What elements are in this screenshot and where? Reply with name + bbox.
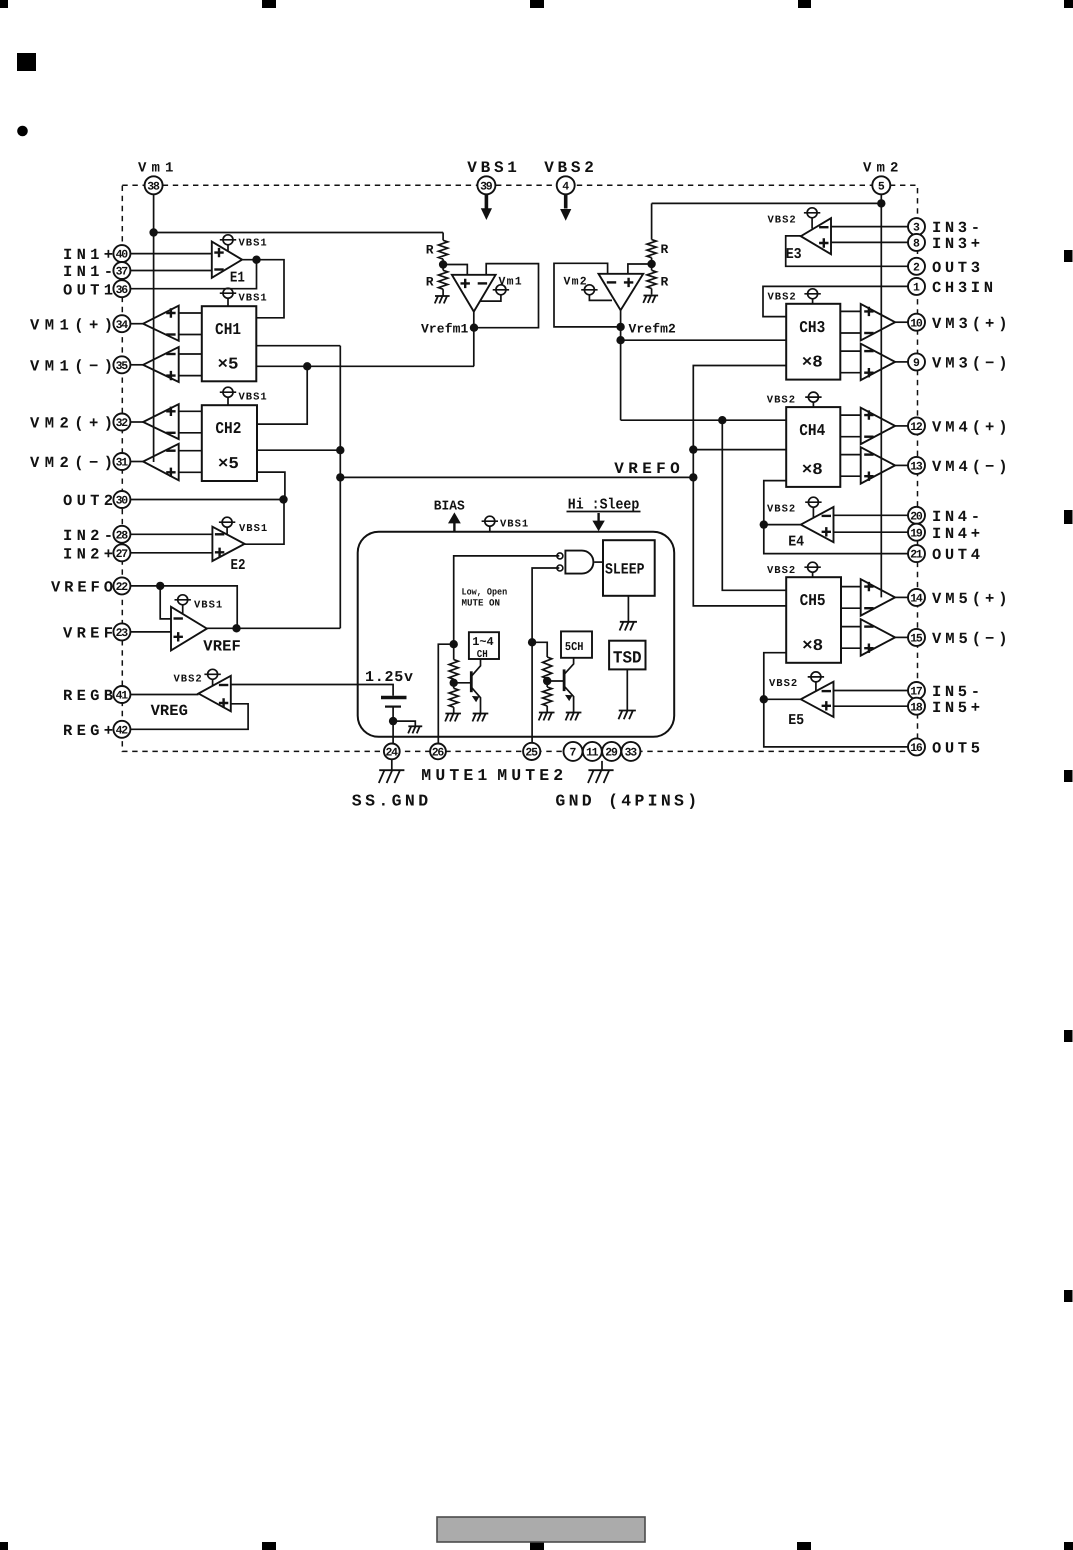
block SLEEP [603,540,655,596]
wire VREG - to 1.25v cap [231,685,393,696]
svg-text:VBS2: VBS2 [769,678,798,690]
svg-text:21: 21 [910,549,923,562]
svg-text:×8: ×8 [802,353,823,372]
wire rail to CH4 input 2 [693,449,786,451]
wire divider2 top [651,203,653,239]
pin 4 [557,176,575,194]
svg-text:VBS2: VBS2 [768,215,797,227]
wire CH3 to buffer row 3 [840,350,860,352]
pin 15 [908,629,925,646]
wire E2 output to OUT2 node [245,500,284,545]
wire CH3 input 2 rail [693,366,786,606]
svg-text:29: 29 [605,747,618,760]
op-amp Vrefm1 [452,275,496,312]
buffer amp U3 (VM4+) [861,408,895,445]
gain block CH1 [202,306,256,381]
ground GND 4 pins [588,770,614,783]
op-amp E1 [212,242,242,278]
wire E4 feedback to CH4 [764,481,786,525]
pin 18 [908,698,925,715]
wire CH1 output to VREF rail [256,345,340,347]
pin 21 [908,545,925,562]
svg-text:Vrefm1: Vrefm1 [421,322,469,337]
pin 7 [564,742,583,761]
svg-text:VBS1: VBS1 [194,600,223,612]
svg-text:5: 5 [878,180,885,193]
wire Vm2 branch to divider2 [652,202,882,204]
svg-text:Vm1: Vm1 [138,161,173,177]
wire buffer D input lower [179,471,202,473]
wire MUTE1 R to ground [453,707,455,713]
svg-text:TSD: TSD [613,650,642,669]
svg-text:CH5: CH5 [800,591,826,610]
wire VREFO horizontal [340,476,693,478]
svg-text:10: 10 [910,317,923,330]
wire E3 output to pin2 OUT3 [786,236,908,266]
junction MUTE2 base node [543,677,551,685]
power tap VBS1 at E2 [219,517,268,535]
svg-text:40: 40 [116,249,129,262]
wire pin18 to E5 + [834,705,909,707]
junction CH4 input branch [718,416,726,424]
wire pin27 to E2 + [130,552,212,554]
pin 42 [113,721,130,738]
svg-text:16: 16 [910,742,923,755]
svg-text:×8: ×8 [802,460,823,479]
svg-text:32: 32 [116,417,129,430]
op-amp VREG [199,676,231,712]
wire CH2 output to VREF rail [257,449,340,451]
svg-text:24: 24 [385,747,398,760]
pin 11 [583,742,602,761]
block 5CH [561,631,592,657]
block TSD [609,641,645,670]
svg-text:37: 37 [116,266,129,279]
Hi :Sleep arrow [592,513,604,531]
wire buffer U6 to pin15 [895,636,908,638]
wire buffer U2 to pin9 [895,361,908,363]
pin 14 [908,589,925,606]
svg-text:VBS2: VBS2 [767,395,796,407]
svg-text:23: 23 [116,627,129,640]
svg-text:CH4: CH4 [799,421,825,440]
pin 1 [908,278,925,295]
pin 5 [872,176,890,194]
svg-text:19: 19 [910,527,923,540]
junction Vm1 branch [149,228,157,236]
wire CH4 to buffer row 1 [840,414,860,416]
svg-text:36: 36 [116,284,129,297]
ground at cap [408,726,422,733]
pin 32 [113,414,130,431]
wire VREG + feedback to pin42 [131,704,249,730]
gain block CH2 [202,405,257,481]
pin 35 [113,356,130,373]
wire buffer A input upper [179,312,202,314]
svg-text:CH3: CH3 [799,318,825,337]
wire MUTE2 node to divider [532,642,547,657]
svg-text:VBS1: VBS1 [500,519,529,531]
node Vrefm2 [616,323,624,331]
svg-text:VBS1: VBS1 [239,293,268,305]
power tap VBS1 at CH2 [220,387,268,405]
junction E1 output [252,256,260,264]
wire pin8 to E3 + [831,241,908,243]
wire CH3 to buffer row 1 [840,310,860,312]
wire divider2 middle [651,258,653,271]
svg-text:×5: ×5 [218,354,239,373]
wire pin31 to buffer D tip [130,461,143,463]
wire pin23 to VREF + [130,631,171,633]
wire buffer U1 to pin10 [895,321,908,323]
ground MUTE1 divider [445,714,461,722]
wire MUTE2 node to pin25 [531,642,533,743]
svg-text:Vrefm2: Vrefm2 [629,322,677,337]
wire divider1 top [442,233,444,241]
wire E4 output to pin21 OUT4 [764,525,908,554]
buffer amp U4 (VM4-) [861,447,895,484]
wire buffer D input upper [179,450,202,452]
svg-text:8: 8 [913,238,920,251]
svg-text:VREG: VREG [151,702,188,720]
svg-text:E4: E4 [788,534,804,551]
svg-text:28: 28 [116,529,129,542]
wire buffer U4 to pin13 [895,464,908,466]
ground at SLEEP [620,622,637,631]
svg-text:38: 38 [147,180,160,193]
VBS1 supply arrow [481,195,492,221]
wire CH4 to buffer row 4 [840,475,860,477]
pin 2 [908,258,925,275]
svg-text:VBS2: VBS2 [767,504,796,516]
svg-text:MUTE2: MUTE2 [497,766,563,785]
buffer amp C (VM2+) [143,404,179,439]
wire pin19 to E4 + [834,531,909,533]
svg-text:VBS2: VBS2 [767,565,796,577]
power tap VBS2 at CH5 [767,562,821,577]
resistor R (divider2 lower) [647,270,656,288]
svg-text:GND (4PINS): GND (4PINS) [555,792,697,811]
svg-text:E2: E2 [231,557,246,574]
wire divider1 bottom [442,289,444,295]
svg-text:2: 2 [913,261,920,274]
ground divider1 [435,296,450,303]
wire MUTE1 to NAND input 1 [454,556,560,644]
wire CH4 to buffer row 2 [840,436,860,438]
svg-text:VBS1: VBS1 [239,238,268,250]
junction rail VREFO [689,473,697,481]
pin 29 [602,742,621,761]
wire pin24 to SS.GND [391,759,393,770]
power tap VBS1 at E1 [220,235,268,251]
power tap VBS1 at CH1 [220,288,268,306]
wire MUTE2 base [547,680,564,682]
wire TSD to ground [626,669,628,710]
wire pin28 to E2 - [130,533,212,535]
junction MUTE1 node [450,640,458,648]
control block rounded box [358,532,675,737]
svg-text:18: 18 [910,701,923,714]
buffer amp U6 (VM5-) [861,619,895,656]
wire CH5 to buffer row 1 [841,586,861,588]
resistor R (divider1 lower) [439,270,448,289]
svg-text:R: R [426,275,434,290]
junction cap ground node [389,717,397,725]
pin 33 [621,742,640,761]
wire pin35 to buffer B tip [130,364,143,366]
svg-text:39: 39 [480,180,493,193]
power tap VBS1 at VREF [175,595,224,614]
resistor R (divider2 upper) [647,240,656,258]
svg-text:MUTE1: MUTE1 [421,766,487,785]
svg-text:1~4: 1~4 [472,635,494,649]
pin 27 [113,544,130,561]
svg-text:Vm1: Vm1 [499,276,523,289]
pin 40 [113,245,130,262]
power tap Vm2 [581,285,612,301]
svg-text:MUTE ON: MUTE ON [462,598,501,609]
wire pin3 to E3 - [831,226,908,228]
svg-text:CH1: CH1 [215,320,241,339]
wire Vm1 rail from pin 38 down [153,194,155,462]
pin 20 [908,507,925,524]
wire CH5 to buffer row 3 [841,626,861,628]
wire CH1/CH2 link down [257,366,307,424]
op-amp Vrefm2 [599,274,644,310]
pin 24 [384,744,400,760]
wire MUTE1 base [454,682,472,684]
wire MUTE2 R junction [546,679,548,687]
wire pin36 OUT1 to E1 output [130,260,256,289]
pin 41 [113,686,130,703]
pin 8 [908,234,925,251]
svg-text:VBS1: VBS1 [239,523,268,535]
svg-text:22: 22 [116,581,129,594]
pin 17 [908,682,925,699]
pin 10 [908,314,925,331]
junction E4 output [760,520,768,528]
ground SS.GND [379,770,405,783]
ground divider2 [643,296,658,303]
wire MUTE2 to NAND input 2 [532,568,559,642]
wire buffer U3 to pin12 [895,425,908,427]
op-amp E2 [212,527,244,561]
junction Vm2 branch [877,199,885,207]
wire CH4 to buffer row 3 [840,454,860,456]
svg-text:27: 27 [116,548,129,561]
wire buffer C input upper [179,410,202,412]
wire pin41 to VREG tip [130,694,198,696]
svg-text:Vm2: Vm2 [564,276,588,289]
pin 22 [113,577,130,594]
wire buffer A input lower [179,334,202,336]
svg-text:VREFO: VREFO [51,579,113,597]
wire MUTE2 R to ground [546,706,548,713]
pin 26 [430,744,446,760]
wire Vrefm1 feedback loop [474,264,539,328]
wire rail to CH5 input 1 [722,420,786,590]
op-amp E3 [801,218,831,254]
wire Vm1 branch to divider [154,232,444,234]
svg-text:7: 7 [570,747,577,760]
svg-text:Low, Open: Low, Open [462,587,508,598]
power tap VBS2 at E5 [769,672,824,692]
wire E4 output node [764,524,801,526]
wire divider1 tap to Vrefm1 + [443,265,467,275]
wire CH5 to buffer row 4 [841,647,861,649]
wire cap to pin 24 [392,708,394,744]
capacitor 1.25v [381,698,407,707]
wire divider2 tap to Vrefm2 + [628,264,652,274]
wire CH5 to buffer row 2 [841,607,861,609]
svg-text:1: 1 [913,282,920,295]
wire Vrefm2 output [620,310,622,420]
junction pin22 node [156,582,164,590]
svg-text:33: 33 [625,747,638,760]
wire pin30 OUT2 [130,499,283,501]
NAND gate [557,551,594,574]
junction MUTE2 node [528,638,536,646]
junction Vrefm1 line CH1/CH2 [303,362,311,370]
svg-text:14: 14 [910,593,923,606]
pin 12 [908,417,925,434]
svg-text:41: 41 [116,690,129,703]
pin 36 [113,280,130,297]
svg-text:CH2: CH2 [215,419,241,438]
svg-text:34: 34 [116,319,129,332]
pin 16 [908,738,925,755]
pin 28 [113,526,130,543]
power tap VBS2 at CH3 [768,289,821,304]
svg-text:R: R [661,275,669,290]
node Vrefm1 [470,324,478,332]
wire Vrefm1 line to CH1 [256,365,474,367]
wire Vrefm2 feedback loop [554,263,621,327]
wire NAND output to SLEEP [594,561,603,563]
svg-text:SLEEP: SLEEP [605,561,645,579]
svg-text:15: 15 [910,633,923,646]
svg-text:VBS1: VBS1 [239,392,268,404]
wire E5 output to pin16 OUT5 [764,699,908,747]
junction Vrefm2 branch [616,336,624,344]
op-amp VREF buffer [171,607,207,651]
wire VREF rail vertical [339,346,341,629]
pin 34 [113,315,130,332]
svg-text:E3: E3 [786,246,802,263]
svg-text:26: 26 [432,747,445,760]
wire pin37 to E1 - [130,270,211,272]
buffer amp U1 (VM3+) [861,304,895,341]
wire buffer C input lower [179,432,202,434]
wire Vm2 rail from pin 5 [880,194,882,597]
VBS2 supply arrow [560,195,571,221]
op-amp E4 [801,507,834,542]
ground MUTE2 divider [539,713,555,721]
buffer amp U2 (VM3-) [861,344,895,381]
ground at TSD [618,711,635,720]
wire pin20 to E4 - [834,514,909,516]
pin 25 [523,743,540,760]
svg-text:4: 4 [562,180,569,193]
svg-text:CH: CH [477,649,488,661]
transistor Q1 [471,659,480,714]
power tap VBS2 at VREG [174,669,221,686]
IC package boundary (dashed) [122,185,917,751]
wire MUTE1 node to pin26 [438,644,453,743]
wire MUTE1 node to R upper [453,644,455,659]
svg-text:35: 35 [116,360,129,373]
power tap VBS1 at control block [482,516,530,532]
resistor MUTE2 upper [543,657,552,679]
svg-text:CH3IN: CH3IN [932,279,993,297]
transistor Q2 [564,658,574,713]
junction OUT2 node [279,495,287,503]
junction E5 output [760,695,768,703]
gain block CH5 [786,577,841,663]
wire MUTE1 R junction [453,679,455,688]
wire E5 feedback to CH5 [764,653,786,700]
wire pin22 to VREF - input [160,586,171,619]
svg-text:E5: E5 [788,712,804,729]
svg-text:1.25v: 1.25v [365,669,413,686]
pin 37 [113,262,130,279]
wire buffer U5 to pin14 [895,596,908,598]
ground Q2 emitter [566,713,582,721]
resistor MUTE1 upper [449,660,458,680]
wire CH3 to buffer row 2 [840,332,860,334]
pin 3 [908,218,925,235]
junction divider2 tap [647,260,655,268]
buffer amp U5 (VM5+) [861,579,895,616]
pin 13 [908,457,925,474]
wire pin17 to E5 - [834,690,909,692]
wire pin22 VREFO to VREF feedback [130,586,237,628]
svg-text:31: 31 [116,457,129,470]
gain block CH4 [786,407,840,487]
block 1-4CH [469,632,499,661]
pin 31 [113,453,130,470]
wire pin40 to E1 + [130,253,211,255]
junction VREF rail CH2 [336,446,344,454]
junction divider1 tap [439,260,447,268]
wire pin1 CH3IN to CH3 [763,286,908,316]
wire pin32 to buffer C tip [130,421,143,423]
power tap VBS2 at E3 [768,208,821,229]
resistor R (divider1 upper) [439,240,448,259]
svg-text:E1: E1 [230,270,245,287]
junction VREF output [232,624,240,632]
svg-text:VBS2: VBS2 [174,674,203,686]
wire buffer B input upper [179,353,202,355]
wire pin34 to buffer A tip [130,323,143,325]
svg-text:R: R [661,242,669,257]
svg-text:Vm2: Vm2 [863,161,898,177]
pin 23 [113,623,130,640]
svg-text:VREF: VREF [203,638,241,656]
resistor MUTE1 lower [449,688,458,707]
svg-text:30: 30 [116,495,129,508]
svg-text:17: 17 [910,686,923,699]
svg-text:25: 25 [525,747,538,760]
resistor MUTE2 lower [543,687,552,706]
buffer amp A (VM1+) [143,306,179,341]
wire SLEEP to ground [627,596,629,622]
svg-text:R: R [426,243,434,258]
buffer amp D (VM2-) [143,444,179,481]
gain block CH3 [786,304,840,380]
wire Vrefm1 output [473,312,475,367]
junction VREF rail VREFO [336,473,344,481]
